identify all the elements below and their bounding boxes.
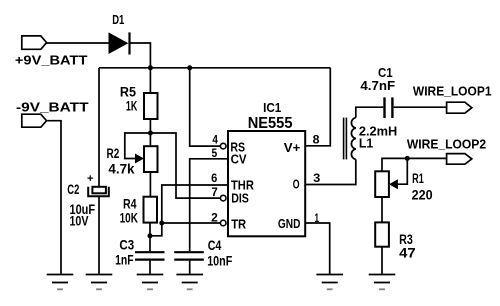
svg-text:8: 8 <box>313 135 321 147</box>
wire R1 bottom to R3 top <box>381 197 383 222</box>
svg-text:4.7nF: 4.7nF <box>360 78 395 93</box>
wire top V+ rail <box>99 67 330 69</box>
junction WIRE_LOOP2/R1 wiper <box>405 156 410 161</box>
wire C2 bottom to ground <box>98 196 100 274</box>
svg-text:3: 3 <box>313 173 320 185</box>
connector WIRE_LOOP2 <box>407 136 486 164</box>
wire R2 bottom to R4 top <box>149 172 151 197</box>
svg-text:1K: 1K <box>126 99 138 114</box>
ground (IC GND pin 1) <box>316 275 343 290</box>
wire -9V tag to ground <box>47 121 61 274</box>
svg-text:10V: 10V <box>70 214 89 229</box>
wire node to TR pin 2 <box>150 223 220 236</box>
svg-text:CV: CV <box>231 152 247 167</box>
ground (C3) <box>137 275 164 290</box>
junction R4/C3/branch <box>148 233 153 238</box>
svg-text:-9V_BATT: -9V_BATT <box>16 100 89 115</box>
svg-text:R2: R2 <box>107 146 120 161</box>
wire O pin 3 to L1 bottom <box>305 159 356 184</box>
svg-text:1: 1 <box>315 213 320 225</box>
svg-text:R5: R5 <box>120 84 137 99</box>
junction R5/R2/wiper/DIS <box>148 131 153 136</box>
svg-text:1nF: 1nF <box>115 253 134 268</box>
wire R5 bottom to R2 top <box>149 119 151 146</box>
ground (C2) <box>86 275 113 290</box>
pin 4 circle RS <box>220 143 226 149</box>
svg-text:IC1: IC1 <box>263 100 281 115</box>
wire diode cathode to corner <box>130 43 150 68</box>
inductor L1 2.2mH <box>344 118 398 160</box>
wire rail junction down to R5 top <box>149 68 151 93</box>
wire GND pin 1 to ground <box>305 223 330 274</box>
connector WIRE_LOOP1 <box>413 84 492 114</box>
svg-text:WIRE_LOOP2: WIRE_LOOP2 <box>407 136 486 151</box>
svg-text:C3: C3 <box>119 238 134 253</box>
svg-text:GND: GND <box>278 216 301 231</box>
svg-text:C4: C4 <box>208 238 222 253</box>
pin 2 circle TR <box>220 220 226 226</box>
svg-text:+9V_BATT: +9V_BATT <box>15 53 88 68</box>
wire node to THR pin 6 <box>162 185 228 223</box>
wire R4 bottom to C3 top <box>149 223 151 252</box>
svg-text:5: 5 <box>212 148 218 160</box>
svg-text:4: 4 <box>212 135 218 147</box>
junction TR/THR <box>159 221 164 226</box>
junction diode/rail/R5 <box>148 65 153 70</box>
wire R2 wiper loop <box>125 133 151 159</box>
capacitor C4 10nF <box>174 238 232 269</box>
junction rail/pin4 <box>187 65 192 70</box>
svg-text:6: 6 <box>211 173 217 185</box>
wire C3 bottom to ground <box>149 261 151 274</box>
svg-text:R4: R4 <box>123 196 137 211</box>
resistor R3 47 <box>375 222 416 260</box>
wire +9V tag to diode anode <box>46 42 109 44</box>
svg-text:+: + <box>87 173 94 185</box>
svg-text:C2: C2 <box>67 182 79 197</box>
wire C1 right to WIRE_LOOP1 tag <box>394 106 447 108</box>
capacitor C1 4.7nF <box>360 65 395 118</box>
wire rail down to C2 top <box>98 68 100 187</box>
svg-text:O: O <box>293 177 300 192</box>
wire node to DIS pin 7 <box>150 133 220 198</box>
svg-text:47: 47 <box>399 246 416 261</box>
wire WIRE_LOOP2 net with R1 top <box>382 158 447 171</box>
svg-text:R1: R1 <box>412 171 424 186</box>
resistor R5 1K <box>120 84 158 119</box>
connector +9V_BATT <box>15 36 88 68</box>
svg-text:L1: L1 <box>359 135 373 150</box>
wire R3 bottom to ground <box>381 247 383 274</box>
svg-text:10K: 10K <box>120 211 138 226</box>
wire rail junction to RS pin 4 <box>190 68 221 146</box>
wire CV pin 5 to C4 top <box>190 159 228 251</box>
potentiometer R2 4.7k <box>107 146 158 176</box>
svg-text:2: 2 <box>211 213 218 225</box>
svg-text:NE555: NE555 <box>248 115 293 132</box>
svg-text:V+: V+ <box>284 140 301 155</box>
svg-text:TR: TR <box>231 216 247 231</box>
capacitor C3 1nF <box>115 238 164 268</box>
svg-text:D1: D1 <box>112 12 124 27</box>
ground (C4) <box>176 275 203 290</box>
wire L1 top to C1 left <box>356 107 384 117</box>
svg-text:10nF: 10nF <box>207 254 232 269</box>
ground (-9V battery) <box>47 275 74 290</box>
pin 7 circle DIS <box>220 195 226 201</box>
svg-text:WIRE_LOOP1: WIRE_LOOP1 <box>413 84 492 99</box>
svg-text:7: 7 <box>211 187 217 199</box>
svg-text:220: 220 <box>412 187 433 202</box>
svg-text:DIS: DIS <box>231 190 249 205</box>
wire C4 bottom to ground <box>189 261 191 274</box>
diode D1 <box>109 12 131 55</box>
resistor R4 10K <box>120 196 157 225</box>
capacitor C2 10uF 10V electrolytic <box>67 173 109 229</box>
wire rail to V+ pin 8 <box>305 68 330 146</box>
svg-text:4.7k: 4.7k <box>108 162 135 177</box>
connector -9V_BATT <box>16 100 89 128</box>
wire R1 wiper <box>397 158 407 184</box>
ground (R3) <box>369 275 396 290</box>
potentiometer R1 220 <box>375 171 432 202</box>
IC1 NE555 box <box>228 100 305 236</box>
